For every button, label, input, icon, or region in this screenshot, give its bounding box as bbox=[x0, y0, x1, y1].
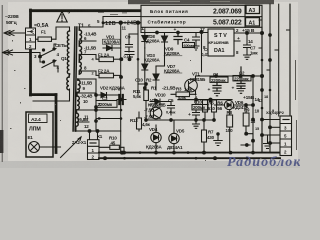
paper noise bbox=[0, 0, 300, 168]
fuse F2 bbox=[92, 53, 121, 62]
mains label bbox=[5, 14, 19, 26]
connector feed wires bbox=[261, 118, 280, 144]
regulator DA1 bbox=[203, 29, 234, 56]
resistor R10 bbox=[99, 136, 125, 155]
T1 secondary upper bbox=[79, 27, 81, 74]
resistor R12 bbox=[130, 112, 151, 131]
transistor VT2 bbox=[148, 98, 164, 119]
lamp E1 bbox=[28, 135, 61, 153]
vertical x138 bbox=[137, 23, 139, 95]
capacitor C9 bbox=[124, 34, 139, 59]
primary bottom wire bbox=[33, 89, 70, 101]
capacitor C2 bbox=[232, 67, 252, 93]
connector XP2 bbox=[266, 110, 292, 156]
T1 tap labels upper bbox=[84, 32, 97, 51]
extra junction dots bbox=[102, 21, 272, 159]
warning triangle bbox=[57, 12, 70, 23]
T1 tap labels lower bbox=[77, 81, 93, 123]
paper background bbox=[0, 0, 300, 168]
-7,5V labels bbox=[144, 108, 155, 120]
junction C9 col bbox=[118, 55, 152, 92]
frame border bbox=[31, 10, 142, 153]
diode VD5 bbox=[167, 120, 185, 153]
capacitor C6 bbox=[193, 33, 216, 58]
vertical x201 bbox=[201, 32, 203, 72]
wire y131 to X1 bbox=[85, 130, 121, 140]
mains wire N bbox=[3, 50, 41, 57]
resistor R11 bbox=[133, 83, 148, 120]
top bus -12V +24V bbox=[103, 21, 146, 32]
switch Q1 bbox=[34, 43, 67, 72]
diode VD10 bbox=[150, 93, 171, 108]
resistor R7 bbox=[202, 120, 215, 154]
diode VD1 bbox=[103, 35, 121, 51]
fuse F3 bbox=[92, 69, 122, 78]
vertical x253 bbox=[252, 76, 260, 153]
diode VD7 bbox=[153, 64, 182, 90]
connector X1 bbox=[88, 134, 103, 160]
scan dark top band bbox=[128, 0, 274, 4]
T1 secondary lower bbox=[76, 79, 80, 131]
+15V out bbox=[234, 28, 264, 35]
A1 box bbox=[246, 18, 260, 27]
bus y32.5 bbox=[141, 27, 208, 34]
title block bbox=[141, 5, 262, 27]
lamp box A2.4 bbox=[26, 112, 53, 157]
diode VD4 bbox=[146, 125, 162, 153]
wire y99.5 bbox=[178, 95, 232, 102]
right bus verticals bbox=[261, 4, 290, 152]
bottom bus dots bbox=[104, 151, 255, 159]
watermark bbox=[227, 155, 302, 170]
ground right bbox=[264, 135, 272, 149]
capacitor C7 bbox=[234, 33, 258, 59]
capacitor C10 bbox=[188, 97, 208, 121]
ground mid C4 bbox=[193, 120, 200, 128]
diode VD6 bbox=[215, 98, 264, 110]
ground below R7 bbox=[214, 133, 222, 146]
T1 taps lower bbox=[76, 79, 121, 131]
transformer T1 bbox=[78, 24, 84, 30]
switch slash bbox=[61, 137, 82, 158]
bottom bus wires bbox=[99, 153, 280, 159]
vertical x121 bbox=[120, 23, 124, 154]
diode VD3 bbox=[142, 48, 161, 89]
capacitor C15 bbox=[166, 98, 175, 115]
capacitor C1 bbox=[208, 72, 229, 96]
diode VD2 bbox=[96, 86, 126, 98]
mid vertical x96 bbox=[95, 79, 101, 131]
+15V label right bbox=[243, 95, 255, 101]
wire to primary top bbox=[56, 27, 70, 39]
transistor VT1 bbox=[185, 72, 206, 96]
title row1 text bbox=[150, 9, 242, 16]
A3 box bbox=[246, 5, 260, 14]
resistor R8 bbox=[226, 104, 256, 153]
R1 label bbox=[151, 86, 176, 92]
capacitor C5 bbox=[174, 28, 195, 48]
title row2 text bbox=[148, 19, 242, 27]
wire y120 bbox=[145, 119, 206, 122]
resistor R3 bbox=[171, 87, 196, 97]
resistor R5 bbox=[203, 100, 224, 122]
T1 core bbox=[73, 27, 77, 131]
mains wire L bbox=[4, 31, 26, 36]
T1 primary winding bbox=[67, 31, 70, 90]
T1 taps upper bbox=[79, 17, 141, 76]
diode VD8 bbox=[142, 30, 161, 48]
scan left edge line bbox=[0, 5, 3, 162]
tiny wire number labels bbox=[255, 94, 275, 131]
capacitor C3 bbox=[96, 95, 126, 107]
bus y76 bbox=[196, 75, 264, 78]
scan speckles bbox=[10, 12, 297, 161]
connector XS1 bbox=[26, 28, 36, 49]
diode VD9 bbox=[162, 33, 183, 67]
A2-X1 label bbox=[72, 140, 87, 145]
tick stubs on right bus bbox=[259, 20, 291, 70]
fuse F1 bbox=[34, 23, 56, 41]
